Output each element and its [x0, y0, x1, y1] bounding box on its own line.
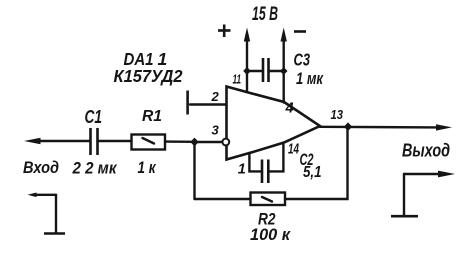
svg-text:1: 1	[238, 162, 246, 178]
svg-text:Выход: Выход	[402, 141, 450, 161]
wire (R2 to output node)	[285, 127, 348, 199]
svg-text:5,1: 5,1	[303, 164, 322, 181]
pin 1 wire	[249, 154, 262, 172]
feedback wire (node to bottom)	[193, 142, 195, 199]
svg-text:11: 11	[233, 72, 242, 87]
svg-text:1 к: 1 к	[138, 158, 157, 177]
node A (input junction)	[190, 138, 198, 147]
output common symbol	[391, 171, 455, 217]
svg-text:C3: C3	[294, 50, 311, 70]
svg-text:1 мк: 1 мк	[296, 69, 324, 88]
svg-text:Вход: Вход	[23, 158, 59, 177]
label +	[218, 29, 231, 32]
svg-text:100 к: 100 к	[250, 225, 291, 244]
wire (C3 right plate to neg supply)	[269, 70, 284, 72]
input arrowhead	[24, 138, 41, 144]
negative supply wire (pin 4)	[283, 39, 285, 103]
label −	[294, 30, 306, 33]
svg-text:13: 13	[331, 108, 344, 122]
pin 14 wire	[268, 143, 283, 171]
resistor R2	[251, 193, 286, 206]
op-amp DA1.1	[227, 87, 321, 160]
svg-text:14: 14	[288, 141, 299, 158]
positive supply arrowhead	[244, 28, 250, 42]
svg-text:C1: C1	[85, 107, 103, 127]
svg-text:2 2 мк: 2 2 мк	[72, 159, 118, 178]
capacitor C3	[263, 58, 269, 82]
svg-text:2: 2	[211, 89, 220, 104]
positive supply wire (pin 11)	[246, 39, 248, 91]
inverting input bubble	[222, 139, 229, 146]
svg-text:3: 3	[212, 123, 220, 138]
input common symbol	[28, 193, 66, 234]
pin 2 terminal bar	[186, 91, 189, 115]
node (output junction)	[344, 122, 352, 131]
node (pin 4 / C3 junction)	[280, 67, 288, 75]
svg-text:R1: R1	[142, 108, 162, 125]
capacitor C2	[262, 160, 268, 184]
wire (R1 to node)	[165, 140, 195, 143]
wire (bottom left to R2)	[195, 198, 251, 200]
wire (to C3 left plate)	[247, 70, 263, 72]
svg-text:4: 4	[285, 101, 294, 117]
output wire (pin 13)	[320, 126, 437, 129]
svg-text:15 В: 15 В	[252, 3, 278, 25]
negative supply arrowhead	[281, 28, 287, 42]
svg-text:К157УД2: К157УД2	[114, 66, 183, 86]
node (pin 11 / C3 junction)	[243, 67, 251, 75]
wire (input line)	[32, 140, 89, 142]
wire (node to inverting input)	[195, 141, 222, 143]
capacitor C1	[91, 128, 98, 155]
output arrowhead	[436, 124, 452, 130]
wire (C1 to R1)	[98, 140, 132, 142]
resistor R1	[132, 135, 166, 150]
pin 2 wire	[190, 103, 226, 105]
